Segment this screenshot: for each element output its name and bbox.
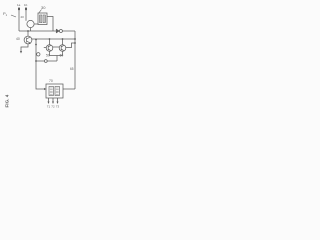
tap node <box>35 39 37 41</box>
node Q2 top <box>49 38 51 40</box>
wire plug to right rail <box>62 30 75 32</box>
arrowhead 2 <box>52 102 54 105</box>
wire to Q3 <box>62 39 64 45</box>
wire box right to bus <box>47 17 53 32</box>
arrowhead 1 <box>48 102 50 105</box>
cell element 2 <box>43 15 45 23</box>
svg-text:20: 20 <box>21 15 25 19</box>
node Q3 rail <box>74 42 76 44</box>
node on tap <box>35 60 37 62</box>
connector pin 1 <box>18 8 20 11</box>
bus wire 2 <box>32 38 75 40</box>
inline connector <box>44 60 47 63</box>
wire motor to box <box>34 23 38 25</box>
svg-text:73: 73 <box>56 105 60 109</box>
node on tap wire <box>35 44 37 46</box>
wire Q1 emitter to ground arrow <box>21 44 28 52</box>
transistor Q1 <box>24 36 32 44</box>
return wire <box>36 60 57 62</box>
wire tap to controller <box>36 61 44 89</box>
right rail wire <box>74 31 76 89</box>
svg-text:1b: 1b <box>24 3 28 7</box>
svg-text:40: 40 <box>16 37 20 41</box>
tap wire down <box>35 40 37 62</box>
node at motor bottom <box>30 28 32 31</box>
wire bus to Q1 <box>27 31 29 36</box>
plug J1 triangle <box>56 29 59 33</box>
arrowhead 3 <box>57 102 59 105</box>
plug J1 ring <box>59 30 62 33</box>
background <box>0 0 89 120</box>
transistor Q3 <box>59 45 66 52</box>
svg-text:65: 65 <box>70 67 74 71</box>
junction node <box>74 38 76 40</box>
arrow from P label <box>11 15 16 17</box>
svg-text:71: 71 <box>47 105 51 109</box>
wire Q2 bottom <box>50 52 58 56</box>
svg-text:30: 30 <box>41 5 46 10</box>
ic block 1 <box>49 87 54 96</box>
bubble node on tap wire <box>37 53 40 56</box>
leader arrow to box <box>39 10 42 13</box>
wire pin1 down <box>18 9 20 31</box>
svg-text:1a: 1a <box>17 3 21 7</box>
ground arrow <box>20 51 22 54</box>
motor M1 <box>27 20 34 27</box>
output stub 2 <box>52 98 54 102</box>
ic block 2 <box>55 87 60 96</box>
transistor Q2 <box>46 45 53 52</box>
arrowhead into controller <box>44 88 46 90</box>
svg-text:FIG. 4: FIG. 4 <box>4 94 9 107</box>
wire Q3 bottom <box>57 52 63 56</box>
transistor Q1 node <box>27 30 29 32</box>
wire rail to controller <box>63 88 75 90</box>
rectifier box 30 <box>38 13 47 25</box>
wire pin2 down to motor <box>25 9 27 21</box>
wire to Q2 <box>49 39 51 45</box>
connector pin 2 <box>25 8 27 11</box>
wire Q3 to rail <box>66 43 75 48</box>
cell element 1 <box>40 15 42 23</box>
controller box 70 <box>46 84 63 98</box>
wire between Q2 Q3 <box>53 46 59 48</box>
node Q3 top <box>62 38 64 40</box>
output stub 1 <box>48 98 50 102</box>
svg-text:72: 72 <box>51 105 55 109</box>
output stub 3 <box>57 98 59 102</box>
svg-text:70: 70 <box>49 79 53 83</box>
wire Q2 gate stub <box>44 47 46 49</box>
wire down to return <box>56 56 58 62</box>
bus wire left <box>19 30 56 32</box>
